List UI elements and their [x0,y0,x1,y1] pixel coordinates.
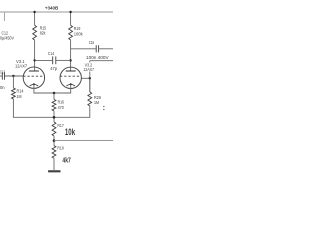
wire R26 column middle [89,78,91,92]
wire cathode to R16 [53,93,55,100]
node junction dot rail/R15 [33,11,35,13]
svg-text:12AX7: 12AX7 [83,67,94,72]
svg-text:1M: 1M [17,94,22,99]
stray colon mark [103,106,104,110]
wire R26 to tail node [54,106,90,117]
node grid input junction dot [12,75,14,77]
resistor R18 [52,146,56,159]
resistor R19 label 100k [74,26,83,36]
wire right plate column upper [70,12,72,25]
wire R16 to tail junction [53,111,55,122]
svg-text:100n 400V: 100n 400V [86,55,109,60]
node V3.2 grid junction dot [89,77,91,79]
svg-text:1M: 1M [94,100,99,105]
svg-text:47p: 47p [50,66,57,71]
node tail junction dot [53,116,56,119]
svg-text:12AX7: 12AX7 [15,64,28,69]
node right plate junction dot [69,59,71,61]
tube V3.1 plate [29,70,39,72]
wire V3.2 grid lead [81,77,89,79]
capacitor C13 input coupling [2,72,4,79]
wire R17 to NFB junction [53,136,55,146]
resistor R14 label 1M [17,89,24,99]
tube V3.2 grid (dashed) [60,75,81,77]
svg-text:100k: 100k [74,31,83,36]
wire C14 bridge right segment [56,59,71,61]
svg-text:0n: 0n [0,85,5,90]
node junction dot rail/R19 [69,11,71,13]
capacitor C14 [53,56,56,64]
resistor R16 label 470 [58,100,65,110]
resistor R15 [33,25,37,40]
tube V3.1 grid (dashed) [23,75,44,77]
tube V3.1 envelope [23,67,44,88]
svg-text:82k: 82k [40,31,46,36]
wire right grid net to edge [90,60,113,62]
node NFB junction dot [53,139,56,142]
wire R26 column upper [89,61,91,92]
svg-text:C13: C13 [0,70,5,75]
node V3.1 cathode dot [33,83,35,85]
svg-text:R15: R15 [40,25,47,30]
wire left plate column upper [34,12,36,25]
svg-text:+340B: +340B [45,5,59,11]
tube V3.2 label [83,63,96,73]
wire input coupling left stub [0,75,2,77]
resistor R14 [12,88,16,99]
node left plate junction dot [33,59,35,61]
ground [48,170,60,172]
svg-text:C15: C15 [89,40,95,45]
wire right plate column lower [70,40,72,71]
svg-text:R19: R19 [74,26,81,31]
wire V3.1 grid lead [5,75,24,77]
resistor R26 [88,92,92,106]
tube V3.2 plate [66,70,76,72]
wire output cap C15 left segment [71,48,96,50]
node V3.2 cathode dot [70,83,72,85]
svg-text:470: 470 [58,105,65,110]
svg-text:10k: 10k [65,127,75,137]
resistor R26 label 1M [94,95,101,105]
resistor R15 label 82k [40,25,47,35]
resistor R17 [52,122,56,136]
tube V3.2 envelope [60,67,81,88]
resistor R19 [69,25,73,40]
wire output cap C15 right segment [99,48,113,50]
svg-text:C14: C14 [48,51,55,56]
resistor R16 [52,100,56,111]
svg-text:R14: R14 [17,89,24,94]
wire B+ top rail [0,11,113,13]
wire R18 to ground [53,158,55,170]
capacitor C12 label (cropped) [0,31,14,41]
wire left plate column lower [34,40,36,71]
node cathode/R16 junction dot [53,92,56,95]
svg-text:R17: R17 [57,123,64,128]
tube V3.2 cathode arc [66,84,75,86]
wire PSU cap C12 stub [4,12,6,21]
wire R14 column upper [12,76,14,88]
svg-text:R18: R18 [57,146,64,151]
svg-text:0µ/450V: 0µ/450V [0,35,14,40]
wire R14 to tail node [13,99,54,117]
capacitor C15 [96,45,98,52]
tube V3.1 label [15,59,28,69]
wire C14 bridge left segment [35,59,53,61]
wire cathode rail [34,84,71,93]
tube V3.1 cathode arc [30,84,39,86]
svg-text:4k7: 4k7 [62,155,70,164]
wire NFB line to edge [54,140,113,142]
